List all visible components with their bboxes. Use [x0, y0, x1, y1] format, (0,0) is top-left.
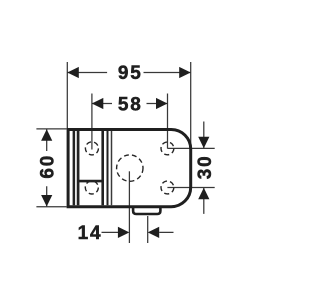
- svg-text:30: 30: [195, 155, 216, 180]
- dimension 30: extension line bottom (from lower-right hole centre): [167, 187, 214, 189]
- upper-left hole (hidden, dashed): [85, 142, 98, 155]
- svg-text:14: 14: [78, 223, 103, 244]
- dimension 60: top arrowhead: [41, 129, 52, 141]
- upper-right hole (hidden, dashed): [161, 142, 174, 155]
- dimension 58: left arrowhead: [92, 98, 104, 109]
- dimension 60: extension line bottom: [36, 206, 66, 208]
- svg-text:58: 58: [118, 94, 143, 115]
- hinge clamp inner line B: [77, 131, 80, 205]
- large central hole (hidden, dashed): [117, 155, 143, 181]
- dimension 58: right arrowhead: [156, 98, 168, 109]
- dimension 30: bottom arrowhead (points up): [198, 188, 209, 200]
- dimension 95: left arrowhead: [67, 67, 79, 78]
- dimension 14: right arrowhead (points left): [148, 227, 160, 238]
- bottom tab: [133, 207, 160, 214]
- svg-text:95: 95: [118, 63, 143, 84]
- dimension 30: top arrowhead (points down): [198, 137, 209, 149]
- dimension 14: extension line right (below tab): [147, 216, 149, 243]
- dimension 95: extension line right: [190, 62, 192, 150]
- lower-right hole (hidden, dashed): [161, 181, 174, 194]
- dimension 58: dimension line: [92, 103, 168, 105]
- dimension 30: extension line top (from upper-right hole centre): [167, 147, 214, 149]
- body outline: [68, 130, 191, 207]
- dimension 58: extension line right (into upper-right hole centre): [167, 94, 169, 149]
- dimension 95: right arrowhead: [179, 67, 191, 78]
- dimension 95: dimension line: [67, 72, 190, 74]
- hinge clamp inner line D: [107, 131, 109, 205]
- channel divider bar: [79, 180, 103, 183]
- dimension 14: extension line left / centre line of large hole: [128, 171, 130, 243]
- svg-text:60: 60: [38, 154, 59, 179]
- dimension 60: extension line top: [36, 128, 66, 130]
- dimension 60: bottom arrowhead: [41, 195, 52, 207]
- dimension 14: dimension line: [102, 231, 174, 233]
- hinge clamp inner line A: [73, 131, 76, 205]
- dimension 58: extension line left (into upper-left hole centre): [91, 94, 93, 150]
- dimension 30: dimension line: [203, 122, 205, 214]
- hinge clamp inner line E: [111, 131, 113, 205]
- dimension 95: extension line left: [66, 62, 68, 128]
- dimension 14: left arrowhead (points right): [118, 227, 129, 238]
- hinge clamp channel right wall C: [101, 131, 104, 205]
- lower-left hole (hidden, dashed): [85, 181, 98, 194]
- dimension 60: dimension line: [46, 129, 48, 206]
